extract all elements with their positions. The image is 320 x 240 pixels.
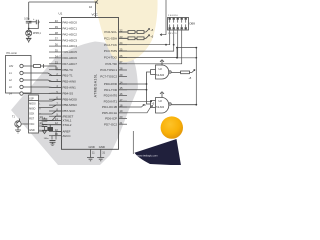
svg-text:PC2-TCK: PC2-TCK <box>104 43 117 47</box>
pin 13 wire (XTAL1) <box>49 120 61 122</box>
wire XTAL1 <box>45 118 62 121</box>
svg-text:GND: GND <box>99 145 105 149</box>
GND pins bottom <box>87 149 104 161</box>
wire top-left vertical <box>28 2 30 20</box>
svg-text:PA6-ADC6: PA6-ADC6 <box>63 56 78 60</box>
svg-text:+5: +5 <box>152 103 155 106</box>
svg-text:74LS00: 74LS00 <box>156 106 165 109</box>
svg-text:PC0-SCL: PC0-SCL <box>104 30 117 34</box>
pin 40 wire (PA0-ADC0) <box>49 22 61 24</box>
svg-text:PC6-TOSC1: PC6-TOSC1 <box>100 68 117 72</box>
ground C4 <box>51 142 55 145</box>
svg-text:+5: +5 <box>189 77 192 80</box>
capacitor C4 plates <box>50 141 56 143</box>
svg-text:PD0-RXD: PD0-RXD <box>104 82 118 86</box>
wire below C1 <box>28 23 30 31</box>
watermark gray triangle/blob <box>11 42 138 166</box>
AREF/AVCC wires <box>50 132 62 146</box>
wire ISP RST to IC <box>39 116 62 120</box>
pin 33 wire (PA7-ADC7) <box>49 63 61 65</box>
pin 39 wire (PA1-ADC1) <box>49 27 61 29</box>
svg-text:PB0-T0: PB0-T0 <box>63 68 74 72</box>
connector pin circles <box>20 64 23 67</box>
pin 15 wire (PD1-TXD) <box>119 89 128 91</box>
svg-text:PB2-AIN0: PB2-AIN0 <box>63 80 77 84</box>
pin 12 wire (XTAL2) <box>49 124 61 126</box>
pin 27 wire (PC5-TDI) <box>119 63 128 65</box>
svg-text:PD4-OC1B: PD4-OC1B <box>102 105 117 109</box>
svg-text:74LS00: 74LS00 <box>156 74 165 77</box>
wire row3 from connector <box>23 80 61 82</box>
logo yellow ball <box>161 116 183 138</box>
mystery vertical wire <box>132 131 134 154</box>
cap plates pair2 <box>42 125 48 127</box>
zener diode ZPD5.1 <box>26 30 32 36</box>
svg-text:L0V: L0V <box>9 65 14 68</box>
svg-text:PA0-ADC0: PA0-ADC0 <box>63 21 78 25</box>
svg-text:PA4-ADC4: PA4-ADC4 <box>63 44 78 48</box>
I2C pullup resistors <box>119 29 150 40</box>
pin 38 wire (PA2-ADC2) <box>49 33 61 35</box>
svg-text:GND: GND <box>89 145 95 149</box>
wire row5 from connector <box>23 92 61 94</box>
wire ISP GND down <box>39 126 45 131</box>
pin 3 wire (PB2-AIN0) <box>49 81 61 83</box>
transistor T1 <box>15 119 29 134</box>
svg-text:+: + <box>33 18 35 21</box>
svg-text:PD1-TXD: PD1-TXD <box>104 88 118 92</box>
logo navy triangle <box>135 139 182 166</box>
svg-text:PB1-T1: PB1-T1 <box>63 74 74 78</box>
svg-text:PC4-TDO: PC4-TDO <box>104 56 118 60</box>
wire PC2-TCK to header <box>119 30 170 45</box>
svg-text:MOSI: MOSI <box>29 103 35 106</box>
junction dot <box>28 28 30 30</box>
pin 18 wire (PD4-OC1B) <box>119 106 128 108</box>
pin 25 wire (PC3-TMS) <box>119 50 128 52</box>
IC U1 ATMEGA16 body <box>62 18 119 150</box>
junction dot gate2 out <box>195 104 197 106</box>
ground symbol 2 <box>97 158 104 161</box>
svg-text:SCK: SCK <box>29 113 34 116</box>
wire row2 from connector <box>23 73 61 76</box>
gate1 inputs <box>151 70 156 75</box>
pin 6 wire (PB5-MOSI) <box>49 98 61 100</box>
svg-text:PC1-SDA: PC1-SDA <box>104 36 117 40</box>
pin 24 wire (PC2-TCK) <box>119 44 128 46</box>
resistor R3 <box>181 71 190 74</box>
svg-text:10: 10 <box>89 5 93 9</box>
wire XTAL2 <box>45 125 62 127</box>
svg-text:VCC: VCC <box>29 123 34 126</box>
header JP1 <box>168 18 189 31</box>
svg-text:ISP: ISP <box>30 96 34 100</box>
svg-text:PA1-ADC1: PA1-ADC1 <box>63 27 78 31</box>
svg-text:100n: 100n <box>44 138 50 140</box>
pin 9 wire (/RESET) <box>49 115 61 117</box>
wire PD3 to node <box>119 100 152 102</box>
text layer <box>7 5 196 158</box>
gate2 feed wire from PD1 <box>119 84 151 104</box>
pin 35 wire (PA5-ADC5) <box>49 51 61 53</box>
wire ISP SCK to IC <box>39 111 62 114</box>
wire PD5 +5 pullup <box>119 106 153 113</box>
svg-text:www.tealogic.com: www.tealogic.com <box>137 154 158 158</box>
pin 37 wire (PA3-ADC3) <box>49 39 61 41</box>
svg-text:PB4-SS: PB4-SS <box>63 91 74 95</box>
svg-text:100n: 100n <box>24 19 30 21</box>
svg-text:PB6-MISO: PB6-MISO <box>63 103 78 107</box>
svg-text:RST: RST <box>29 118 34 121</box>
wire row1 from connector <box>23 64 61 70</box>
svg-text:U2: U2 <box>159 99 163 103</box>
pin 32 wire (AREF) <box>49 131 61 133</box>
ground crystal <box>42 127 48 134</box>
crystal body <box>47 127 53 131</box>
svg-text:PB7-SCK: PB7-SCK <box>63 109 76 113</box>
gate U2B 74LS00 <box>119 83 198 113</box>
svg-text:AVCC: AVCC <box>63 134 72 138</box>
wire ISP MOSI to IC <box>39 99 62 101</box>
svg-text:PD2-INT0: PD2-INT0 <box>104 94 118 98</box>
svg-text:T1: T1 <box>12 116 15 119</box>
junction dot PD3 <box>150 100 152 102</box>
gate1 output wire <box>171 70 195 73</box>
pin 34 wire (PA6-ADC6) <box>49 57 61 59</box>
gate2 inputs <box>151 101 156 108</box>
VCC arrow gate1 <box>160 60 164 66</box>
VCC arrow symbol <box>96 1 99 4</box>
pin 36 wire (PA4-ADC4) <box>49 45 61 47</box>
wire branch to C2 <box>29 22 40 29</box>
watermark yellow blob <box>94 0 158 62</box>
wire PC0 <box>119 29 150 33</box>
junction dots JTAG <box>165 44 167 46</box>
VCC rail wire <box>29 2 96 17</box>
capacitor C2 plates <box>36 20 38 24</box>
svg-text:DB9: DB9 <box>190 22 196 26</box>
wire PC5-TDI to header <box>119 30 182 64</box>
pin 30 wire (AVCC) <box>49 135 61 137</box>
svg-text:1 3 5 7 9: 1 3 5 7 9 <box>168 33 177 35</box>
JTAG wires to header <box>119 30 182 64</box>
svg-text:VCC: VCC <box>92 13 99 17</box>
svg-text:PC7-TOSC2: PC7-TOSC2 <box>100 75 117 79</box>
capacitor C1 plates <box>26 21 32 23</box>
ground symbol 1 <box>87 158 94 161</box>
svg-text:PD5-OC1A: PD5-OC1A <box>102 111 117 115</box>
svg-text:PA5-ADC5: PA5-ADC5 <box>63 50 78 54</box>
svg-text:PD6-ICP: PD6-ICP <box>105 117 117 121</box>
pin 20 wire (PD6-ICP) <box>119 118 128 120</box>
ground under T1 <box>15 130 21 133</box>
cap plates pair1 <box>42 119 48 121</box>
svg-text:GND: GND <box>29 129 35 132</box>
pin 21 wire (PD7-OC2) <box>119 123 128 125</box>
resistor R1 <box>34 65 41 68</box>
svg-text:U2: U2 <box>159 67 163 71</box>
svg-text:U1: U1 <box>59 12 63 16</box>
gate1 feed wire from PD0 <box>119 72 151 84</box>
pin 8 wire (PB7-SCK) <box>49 110 61 112</box>
svg-text:PC3-TMS: PC3-TMS <box>104 49 117 53</box>
gate2 output wire <box>171 104 196 106</box>
wire row4 from connector <box>23 86 61 88</box>
junction dots wire loop <box>176 47 178 49</box>
svg-text:PA3-ADC3: PA3-ADC3 <box>63 38 78 42</box>
svg-text:PB3-AIN1: PB3-AIN1 <box>63 86 77 90</box>
crystal Q1 circuit <box>42 118 61 134</box>
pin 4 wire (PB3-AIN1) <box>49 86 61 88</box>
svg-text:ATMEGA16L: ATMEGA16L <box>94 74 98 98</box>
svg-text:PA2-ADC2: PA2-ADC2 <box>63 32 78 36</box>
pin 26 wire (PC4-TDO) <box>119 56 128 58</box>
pin 22 wire (PC0-SCL) <box>119 31 128 33</box>
wire ISP MISO to IC <box>39 105 62 107</box>
VCC arrow gate2 <box>160 92 164 98</box>
pin 14 wire (PD0-RXD) <box>119 83 128 85</box>
svg-text:PC5-TDI: PC5-TDI <box>105 62 117 66</box>
VCC wire to header <box>160 0 196 105</box>
pin 19 wire (PD5-OC1A) <box>119 112 128 114</box>
wire PC1 <box>119 35 150 39</box>
svg-text:PB5-MOSI: PB5-MOSI <box>63 97 78 101</box>
svg-text:PD3-INT1: PD3-INT1 <box>104 99 118 103</box>
gate U2A 74LS00 <box>119 60 195 84</box>
svg-text:2 4 6 8 10: 2 4 6 8 10 <box>168 15 179 17</box>
wire PD4 +5 pullup <box>119 105 145 108</box>
wire to ground <box>28 36 30 38</box>
pin 1 wire (PB0-T0) <box>49 69 61 71</box>
pin 17 wire (PD3-INT1) <box>119 100 128 102</box>
far right vertical wire <box>195 58 197 105</box>
wire PC4-TDO to header <box>119 30 178 57</box>
svg-text:PD7-OC2: PD7-OC2 <box>104 122 117 126</box>
pin 23 wire (PC1-SDA) <box>119 37 128 39</box>
svg-text:MISO: MISO <box>29 108 35 111</box>
wire PC3-TMS to header <box>119 30 174 51</box>
junction dots feeds <box>146 83 148 85</box>
svg-text:ZPD5,1: ZPD5,1 <box>33 33 42 35</box>
pin 2 wire (PB1-T1) <box>49 75 61 77</box>
pin 7 wire (PB6-MISO) <box>49 104 61 106</box>
svg-text:PC-conn: PC-conn <box>7 51 18 55</box>
pin 29 wire (PC7-TOSC2) <box>119 75 128 77</box>
wire loop right of header <box>177 48 196 58</box>
svg-text:XTAL2: XTAL2 <box>63 123 72 127</box>
connector J1 PC port box <box>6 56 32 94</box>
header pin squares <box>169 18 171 20</box>
pin 28 wire (PC6-TOSC1) <box>119 69 128 71</box>
pin 16 wire (PD2-INT0) <box>119 95 128 97</box>
ground symbol top-left <box>26 38 32 42</box>
svg-text:PA7-ADC7: PA7-ADC7 <box>63 62 78 66</box>
connector ISP box <box>29 95 39 133</box>
pin 5 wire (PB4-SS) <box>49 92 61 94</box>
svg-text:+5: +5 <box>143 104 146 107</box>
